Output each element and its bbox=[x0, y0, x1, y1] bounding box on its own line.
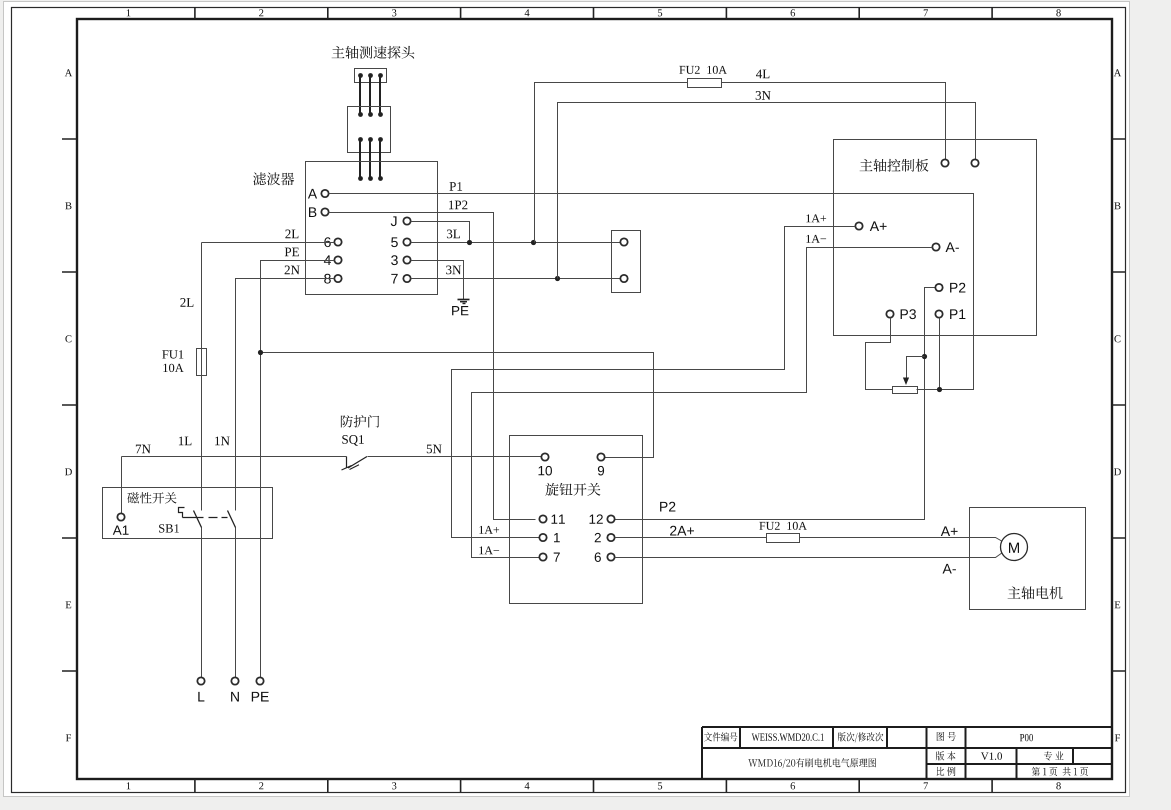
filter terminal J bbox=[391, 216, 411, 226]
terminal A1 bbox=[113, 513, 129, 534]
motor box 主轴电机 bbox=[970, 508, 1086, 610]
title cell version V1.0 bbox=[981, 752, 1002, 760]
board terminal P3 bbox=[886, 309, 916, 319]
switch SB1 linkage (dashed) bbox=[183, 517, 228, 519]
wire net 1P2 (B down to rotary switch pin 11) bbox=[329, 213, 536, 520]
rotary pin 9 bbox=[597, 453, 604, 475]
switch SB1 actuator hook bbox=[179, 508, 185, 518]
net label 5N bbox=[427, 445, 442, 454]
magnetic switch box 磁性开关 bbox=[103, 488, 273, 539]
probe connector socket bbox=[348, 107, 391, 153]
title block bbox=[702, 727, 1112, 779]
label 主轴测速探头 (spindle speed probe) bbox=[332, 46, 415, 59]
title cell 专业 bbox=[1044, 751, 1064, 760]
motor M1 symbol bbox=[1001, 534, 1028, 561]
switch SB1 designator bbox=[159, 524, 179, 532]
title cell 版次/修改次 bbox=[838, 732, 884, 742]
wire net 5N (SQ1 to rotary pin 10) bbox=[368, 456, 542, 458]
wire probe leads upper bbox=[360, 75, 380, 114]
net label 1A+ (rotary side) bbox=[479, 526, 499, 534]
board supply terminal (3N) bbox=[971, 159, 978, 166]
filter terminal 5 bbox=[391, 237, 410, 247]
connector block (3L/3N) bbox=[612, 231, 641, 293]
board terminal P1 bbox=[935, 309, 965, 319]
wire 2L vertical through FU1 and SB1 left pole bbox=[201, 243, 203, 678]
filter terminal 8 bbox=[324, 274, 341, 284]
terminal L bbox=[197, 677, 204, 701]
probe connector plug (top) bbox=[355, 69, 387, 83]
fuse FU2 10A (motor) bbox=[759, 522, 807, 543]
rotary pin 10 bbox=[539, 453, 553, 475]
potentiometer body (speed pot) bbox=[893, 387, 918, 394]
filter terminal 3 bbox=[391, 255, 411, 265]
net label 2L bbox=[285, 230, 298, 239]
wire net 2N (pin 8 down to SB1 right pole) bbox=[236, 279, 335, 678]
junction 4L/3L bbox=[531, 240, 536, 245]
title cell page 第1页 共1页 bbox=[1032, 767, 1088, 776]
title cell drawing name WMD16/20有刷电机电气原理图 bbox=[748, 758, 876, 768]
terminal PE bbox=[252, 677, 269, 701]
wire P3 to potentiometer left bbox=[866, 318, 893, 390]
board terminal A+ bbox=[855, 221, 886, 231]
net label 1A+ (board side) bbox=[806, 214, 826, 222]
potentiometer wiper arrow bbox=[903, 357, 925, 386]
net label 1A- (rotary side) bbox=[479, 546, 499, 554]
board supply terminal (4L) bbox=[941, 159, 948, 166]
wire net 3N (pin 7 to connector) bbox=[411, 278, 621, 280]
title cell 版本 bbox=[936, 751, 956, 760]
filter terminal 4 bbox=[324, 255, 342, 265]
net label 1L bbox=[179, 437, 192, 446]
label 滤波器 bbox=[253, 172, 294, 185]
title cell document number WEISS.WMD20.C.1 bbox=[752, 733, 824, 741]
net label 2A+ bbox=[670, 526, 694, 536]
switch SQ1 contact bbox=[342, 457, 368, 471]
wire 7N drop to A1 bbox=[121, 457, 123, 514]
filter terminal B bbox=[309, 207, 329, 217]
wire net 1A+ (A+ to rotary pin 1) bbox=[452, 227, 856, 538]
net label PE bbox=[285, 248, 299, 257]
wire net 2L (pin 6 to FU1) bbox=[202, 242, 335, 244]
net label 1A- (board side) bbox=[806, 235, 826, 243]
wire net P1 (A to control board, via right drop to potentiometer) bbox=[329, 194, 974, 390]
filter terminal 7 bbox=[391, 274, 410, 284]
label 磁性开关 bbox=[127, 492, 176, 503]
net label 7N bbox=[136, 445, 151, 454]
wire pin 3 to PE ground bbox=[411, 261, 464, 300]
wire net A- (rotary pin 6 to motor A-) bbox=[615, 553, 1003, 558]
control board box 主轴控制板 bbox=[834, 140, 1037, 336]
filter box 滤波器 bbox=[306, 162, 438, 295]
wire net 3N (junction up and over to control board) bbox=[558, 103, 976, 279]
rotary pin 7 bbox=[539, 553, 559, 562]
label 主轴控制板 bbox=[860, 159, 929, 172]
net label P2 (rotary side) bbox=[660, 502, 675, 512]
junction P1 bbox=[937, 387, 942, 392]
label 防护门 (protective door) bbox=[341, 415, 379, 428]
title cell 比例 bbox=[937, 767, 956, 776]
fuse FU1 10A bbox=[162, 349, 206, 376]
wire net 3L (pin 5 to connector) bbox=[411, 242, 621, 244]
label 旋钮开关 bbox=[545, 483, 600, 496]
filter terminal 6 bbox=[324, 237, 341, 247]
net label 3N (top) bbox=[756, 91, 771, 100]
net label 4L bbox=[756, 70, 769, 79]
switch SB1 right contact blade bbox=[228, 511, 236, 528]
fuse FU2 10A (top) bbox=[679, 66, 727, 88]
rotary pin 2 bbox=[595, 533, 615, 542]
wire net 1A- (A- to rotary pin 7) bbox=[472, 248, 933, 558]
net label 1P2 bbox=[449, 201, 467, 210]
title cell drawing number P00 bbox=[1020, 734, 1033, 741]
wire P1 stub down bbox=[939, 318, 941, 390]
title cell 图号 bbox=[937, 732, 956, 741]
net label P1 bbox=[450, 182, 463, 191]
label 主轴电机 bbox=[1008, 586, 1063, 599]
net label 3N bbox=[446, 266, 461, 275]
ground PE symbol bbox=[452, 300, 469, 316]
wire J to 3L junction bbox=[411, 222, 470, 243]
title cell 文件编号 bbox=[704, 732, 737, 741]
rotary pin 12 bbox=[590, 514, 615, 523]
junction on PE vertical bbox=[258, 350, 263, 355]
wire net 7N (A1 to SQ1) bbox=[122, 456, 347, 458]
net label 3L bbox=[447, 230, 460, 239]
net label A+ bbox=[941, 526, 958, 536]
rotary switch box 旋钮开关 bbox=[510, 436, 643, 604]
junction 3N bbox=[555, 276, 560, 281]
rotary pin 6 bbox=[595, 552, 615, 562]
net label 2N bbox=[285, 266, 300, 275]
rotary pin 1 bbox=[539, 533, 559, 542]
wire PE-net to rotary pin 9 bbox=[261, 353, 654, 458]
board terminal A- bbox=[932, 242, 959, 252]
wire net 2A+ (rotary pin 2 through FU2 to motor A+) bbox=[615, 538, 1003, 542]
net label 1N bbox=[215, 437, 229, 446]
switch SQ1 designator bbox=[342, 435, 364, 446]
wire net P2 (P2 terminal down to rotary pin 12) bbox=[615, 288, 935, 520]
junction P2/wiper bbox=[922, 354, 927, 359]
wire net PE (pin 4 down to PE terminal) bbox=[261, 261, 335, 678]
filter terminal A bbox=[308, 189, 329, 199]
wire probe leads lower bbox=[358, 139, 383, 181]
board terminal P2 bbox=[935, 283, 965, 293]
junction J/3L bbox=[467, 240, 472, 245]
net label 2L (vertical run) bbox=[180, 298, 193, 307]
terminal N bbox=[231, 677, 239, 701]
wire net 4L (3L junction up through FU2 to control board) bbox=[535, 83, 946, 243]
rotary pin 11 bbox=[539, 515, 565, 524]
net label A- bbox=[943, 564, 956, 574]
switch SB1 left contact blade bbox=[194, 511, 202, 528]
